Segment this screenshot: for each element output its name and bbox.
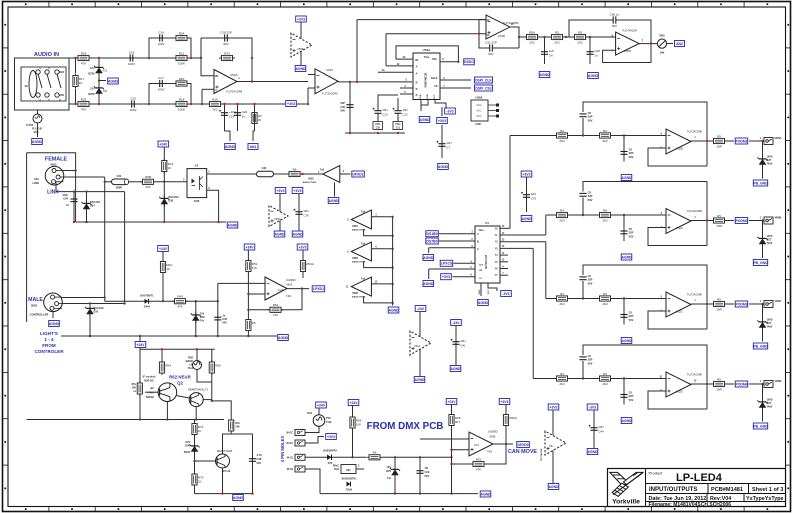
svg-text:TL072ACDR8: TL072ACDR8 xyxy=(687,131,703,134)
svg-text:+24V: +24V xyxy=(349,401,358,405)
resistor R6A xyxy=(160,260,172,275)
junction xyxy=(761,140,763,142)
svg-text:OUT: OUT xyxy=(278,289,284,292)
resistor R55 xyxy=(137,381,142,396)
svg-text:C5: C5 xyxy=(629,227,633,231)
svg-text:2K2: 2K2 xyxy=(529,40,535,44)
wire DAC pin A to U54D xyxy=(385,34,387,66)
svg-text:10K: 10K xyxy=(356,423,361,427)
wire male pin gnd xyxy=(52,312,54,318)
svg-text:47K: 47K xyxy=(81,61,86,65)
wire U52B output xyxy=(691,140,713,142)
ground AGND lights rail xyxy=(278,335,289,341)
wire to AN1 xyxy=(253,131,255,141)
svg-text:AGND: AGND xyxy=(389,308,400,312)
junction xyxy=(419,456,421,458)
svg-text:LINK: LINK xyxy=(32,181,39,185)
wire U50B pullup xyxy=(451,405,453,494)
wire U52A output xyxy=(691,220,713,222)
resistor R47 xyxy=(711,297,727,311)
svg-text:74xx: 74xx xyxy=(478,229,484,232)
junction xyxy=(223,103,225,105)
op-amp U52B xyxy=(666,129,703,154)
wire opto out pin3 xyxy=(207,190,219,222)
svg-text:C10: C10 xyxy=(376,127,381,129)
wire U54A inverting input xyxy=(201,58,214,76)
svg-text:10U: 10U xyxy=(446,141,452,145)
svg-text:R62: R62 xyxy=(188,356,193,360)
capacitor C50 xyxy=(607,12,623,27)
svg-text:BAS/LVTH08: BAS/LVTH08 xyxy=(303,181,317,184)
capacitor C15 xyxy=(125,96,141,111)
svg-text:PB_GND: PB_GND xyxy=(753,344,768,348)
wire zener BZT4 drop xyxy=(762,384,764,400)
svg-text:C: C xyxy=(477,248,479,251)
svg-text:C76: C76 xyxy=(303,213,309,217)
junction xyxy=(253,103,255,105)
wire U52B from decoder xyxy=(509,136,511,229)
capacitor C70 electrolytic xyxy=(521,186,537,206)
svg-text:PODM3: PODM3 xyxy=(735,302,747,306)
wire lamp to +24V xyxy=(318,408,320,415)
svg-text:+3V3: +3V3 xyxy=(549,405,557,409)
diode D44A xyxy=(145,299,149,304)
svg-text:CLK: CLK xyxy=(479,265,484,267)
junction xyxy=(349,132,351,134)
wire to PODM label xyxy=(727,140,734,142)
svg-text:AGND: AGND xyxy=(275,232,286,236)
svg-text:Yorkville: Yorkville xyxy=(612,499,640,506)
junction xyxy=(193,460,195,462)
wire U52D output xyxy=(371,283,392,285)
svg-text:74x8: 74x8 xyxy=(767,406,773,409)
svg-text:D36: D36 xyxy=(169,200,174,203)
wire U51A rail xyxy=(419,312,421,376)
connector VR6C xyxy=(764,301,773,308)
svg-text:U52C: U52C xyxy=(676,310,683,314)
svg-text:C15: C15 xyxy=(130,96,136,100)
svg-text:DSDO: DSDO xyxy=(464,60,474,64)
node LPXCS xyxy=(440,260,453,266)
power +3V3 column stage2 xyxy=(521,171,532,177)
resistor R49 xyxy=(172,295,188,309)
wire LM393A inverting input xyxy=(217,283,219,301)
junction xyxy=(761,383,763,385)
wire LM393A non-inverting input xyxy=(248,293,265,295)
svg-text:100V: 100V xyxy=(157,87,164,91)
svg-text:C17: C17 xyxy=(158,76,164,80)
svg-text:2K2: 2K2 xyxy=(212,107,218,111)
svg-text:100V: 100V xyxy=(157,42,164,46)
svg-text:1u5: 1u5 xyxy=(549,49,554,53)
power +24V male pullup xyxy=(158,246,169,252)
zener D45 sym xyxy=(191,312,201,324)
svg-text:A: A xyxy=(477,233,479,236)
wire U50B output xyxy=(493,443,513,445)
wire lights rail xyxy=(61,335,277,337)
junction xyxy=(195,418,197,420)
svg-text:VR6D: VR6D xyxy=(775,379,782,383)
svg-text:C5: C5 xyxy=(588,191,592,195)
wire to AGND ch2 xyxy=(225,131,231,141)
junction xyxy=(478,33,480,35)
svg-text:10R: 10R xyxy=(716,144,722,148)
junction xyxy=(148,103,150,105)
resistor R69 xyxy=(503,413,517,428)
svg-text:LIGHT'S: LIGHT'S xyxy=(40,331,58,336)
resistor R66 xyxy=(229,420,234,432)
svg-text:R4: R4 xyxy=(560,372,564,376)
wire C50 to output xyxy=(621,20,651,44)
node DS7B0 xyxy=(426,238,439,244)
capacitor C14 xyxy=(153,30,169,45)
wire stage U52A input xyxy=(546,214,666,216)
svg-text:U5x: U5x xyxy=(549,445,554,448)
svg-text:MJE-BC: MJE-BC xyxy=(144,380,154,383)
svg-text:3622: 3622 xyxy=(50,163,57,167)
op-amp U54D xyxy=(486,15,519,39)
op-amp U52C xyxy=(666,292,703,317)
svg-text:R49: R49 xyxy=(177,295,183,299)
svg-text:R4: R4 xyxy=(603,292,607,296)
wire ch2 bottom xyxy=(69,103,285,105)
junction xyxy=(518,36,520,38)
connector J5 molex pins xyxy=(295,430,305,436)
power +3V3 LM393A xyxy=(297,244,308,250)
wire PODM to connector xyxy=(749,383,763,385)
wire U50B feedback xyxy=(485,444,506,464)
svg-text:R25: R25 xyxy=(81,97,87,101)
svg-text:N.C: N.C xyxy=(477,109,482,113)
junction xyxy=(351,456,353,458)
wire to U50C input xyxy=(303,173,323,175)
svg-text:+3V3: +3V3 xyxy=(276,189,284,193)
svg-text:R56: R56 xyxy=(529,30,535,34)
svg-text:+3V3: +3V3 xyxy=(298,245,306,249)
resistor R42 xyxy=(554,208,570,222)
svg-text:+24V: +24V xyxy=(136,343,145,347)
svg-text:4.7U: 4.7U xyxy=(257,453,263,457)
svg-text:D35: D35 xyxy=(94,311,99,314)
transistor Q3 xyxy=(188,388,209,407)
wire C21 to output xyxy=(498,47,519,49)
ferrite C61 xyxy=(112,179,129,185)
wire filter chain xyxy=(519,36,616,38)
svg-text:Q2: Q2 xyxy=(150,386,154,390)
svg-text:10U: 10U xyxy=(382,108,388,112)
svg-text:VCC: VCC xyxy=(488,289,490,294)
svg-text:VCC: VCC xyxy=(434,94,436,99)
svg-text:7x66: 7x66 xyxy=(326,421,332,424)
wire stage U52B input xyxy=(510,135,666,137)
svg-text:R5: R5 xyxy=(717,134,721,138)
capacitor C17 xyxy=(153,76,169,91)
svg-text:R4: R4 xyxy=(603,129,607,133)
svg-text:C38: C38 xyxy=(257,457,262,461)
wire R64 top xyxy=(161,349,163,361)
power +24V LM393A xyxy=(244,244,255,250)
junction xyxy=(195,335,197,337)
resistor R53 xyxy=(300,259,314,274)
svg-text:AGND: AGND xyxy=(622,255,633,259)
ground AGND U52B xyxy=(621,175,632,181)
op-amp U54A xyxy=(214,70,243,94)
svg-text:C26: C26 xyxy=(340,105,345,109)
junction xyxy=(349,81,351,83)
logo Yorkville xyxy=(610,472,643,496)
svg-text:PB_GND: PB_GND xyxy=(753,424,768,428)
wire capacitor C54 drop xyxy=(623,136,625,162)
svg-text:DSPI_CLK: DSPI_CLK xyxy=(475,78,492,82)
comparator U50F LM393 xyxy=(265,277,296,300)
svg-text:100V: 100V xyxy=(129,108,136,112)
svg-text:22P: 22P xyxy=(340,101,345,105)
svg-text:C4: C4 xyxy=(195,164,199,168)
ground AGND ch2 caps xyxy=(225,144,236,150)
junction xyxy=(251,57,253,59)
wire U54A feedback loop xyxy=(200,38,202,58)
svg-text:C22: C22 xyxy=(242,110,248,114)
resistor R22 xyxy=(252,111,262,126)
junction xyxy=(706,303,708,305)
wire bottom gnd rail Q block xyxy=(195,493,253,495)
ground AGND dmx bottom xyxy=(480,491,491,497)
resistor R49 xyxy=(597,372,613,386)
svg-text:-3V3: -3V3 xyxy=(589,405,596,409)
resistor R7A xyxy=(162,159,174,174)
svg-text:R65: R65 xyxy=(215,364,221,368)
svg-text:U55B: U55B xyxy=(624,49,631,53)
svg-text:AGND: AGND xyxy=(588,450,599,454)
svg-text:C70: C70 xyxy=(531,196,537,200)
wire U52A right edge low xyxy=(706,221,708,246)
capacitor C64 xyxy=(73,192,75,222)
wire D35 top xyxy=(89,304,91,306)
power -24V U51A xyxy=(415,306,426,312)
junction xyxy=(98,57,100,59)
wire molex pin4 chain xyxy=(305,469,320,494)
wire zener to PB_GND xyxy=(762,331,764,342)
svg-text:R5: R5 xyxy=(717,214,721,218)
op-amp U54C xyxy=(315,68,338,96)
wire Q3 to R65 node xyxy=(203,399,212,401)
svg-text:18V: 18V xyxy=(90,66,95,70)
wire U50C output xyxy=(340,173,351,175)
wire U52A plus loop xyxy=(648,228,707,246)
svg-text:2K2: 2K2 xyxy=(602,139,608,143)
junction xyxy=(74,169,76,171)
svg-text:18V: 18V xyxy=(90,87,95,91)
svg-text:LPXD1: LPXD1 xyxy=(313,287,324,291)
wire U52C output xyxy=(691,303,713,305)
capacitor C28 xyxy=(218,30,234,45)
svg-text:-24V: -24V xyxy=(417,307,425,311)
svg-text:+24V: +24V xyxy=(447,400,456,404)
ground AGND C41 xyxy=(450,366,461,372)
svg-text:(F section): (F section) xyxy=(143,376,156,379)
wire +3V3 stub U54 xyxy=(441,107,443,116)
svg-text:AGND: AGND xyxy=(225,145,236,149)
wire to PODM label xyxy=(727,220,734,222)
svg-text:TL072ACDR8: TL072ACDR8 xyxy=(226,90,243,94)
junction xyxy=(104,296,106,298)
svg-text:1K: 1K xyxy=(198,480,202,484)
svg-text:AGND: AGND xyxy=(522,217,533,221)
svg-text:R21: R21 xyxy=(179,51,185,55)
transistor Q2 xyxy=(158,383,177,402)
svg-text:R18: R18 xyxy=(179,97,185,101)
svg-text:U50A: U50A xyxy=(286,284,293,287)
junction xyxy=(73,221,75,223)
node UFXD0 xyxy=(517,442,530,448)
wire U56B rail xyxy=(300,22,302,66)
wire U52D output xyxy=(691,383,713,385)
svg-text:R6: R6 xyxy=(373,451,377,455)
svg-text:R4: R4 xyxy=(603,208,607,212)
wire capacitor C58 drop xyxy=(623,299,625,325)
power +3V3 U50H xyxy=(548,404,559,410)
connector J3 barrel xyxy=(29,71,37,98)
svg-text:-3V3: -3V3 xyxy=(502,292,509,296)
svg-text:Sheet 1 of 3: Sheet 1 of 3 xyxy=(752,487,783,493)
svg-text:U54C: U54C xyxy=(326,68,333,72)
capacitor C54 xyxy=(620,151,627,153)
node PODM1 xyxy=(735,138,748,144)
svg-text:AGND: AGND xyxy=(451,367,462,371)
svg-text:AGND: AGND xyxy=(49,322,60,326)
junction xyxy=(397,132,399,134)
wire U54D output xyxy=(510,27,519,48)
svg-text:AGND: AGND xyxy=(423,256,434,260)
ground AGND C47 xyxy=(539,72,550,78)
capacitor C22 xyxy=(234,106,248,122)
connector J3 audio jack outer box xyxy=(15,58,70,110)
svg-text:BZX8: BZX8 xyxy=(88,73,95,76)
wire U52D feedback box xyxy=(582,361,584,379)
svg-text:C61: C61 xyxy=(117,174,122,178)
node UFXD1 xyxy=(352,171,365,177)
svg-text:AUDIO IN: AUDIO IN xyxy=(34,52,59,58)
svg-text:1K: 1K xyxy=(198,429,202,433)
svg-text:LINK: LINK xyxy=(47,190,59,196)
svg-text:1N: 1N xyxy=(425,466,428,470)
wire Q2 collector xyxy=(139,349,141,419)
svg-text:R19: R19 xyxy=(212,97,218,101)
power +24V pin3 pullup xyxy=(348,400,359,406)
svg-text:UFXD0: UFXD0 xyxy=(517,443,528,447)
wire U52C right edge low xyxy=(706,304,708,329)
svg-text:2K2: 2K2 xyxy=(602,302,608,306)
wire C26 bottom rail xyxy=(349,82,351,133)
junction xyxy=(196,348,198,350)
capacitor C55 xyxy=(579,195,586,197)
svg-text:50V: 50V xyxy=(629,155,634,159)
svg-text:50V: 50V xyxy=(629,234,634,238)
IC U54 DAC xyxy=(413,53,440,100)
svg-text:10U: 10U xyxy=(460,339,466,343)
wire feedback left xyxy=(452,463,473,465)
wire LM393A feedback xyxy=(248,289,302,310)
svg-text:AGND: AGND xyxy=(233,496,244,500)
resistor R57 xyxy=(549,30,565,44)
svg-text:R60: R60 xyxy=(660,34,665,38)
svg-text:C48: C48 xyxy=(594,49,600,53)
svg-text:SCLK: SCLK xyxy=(431,77,438,80)
svg-text:HA: HA xyxy=(415,59,419,62)
svg-text:OUT: OUT xyxy=(474,444,480,447)
resistor R20 xyxy=(174,77,190,86)
wire LM393A output xyxy=(287,288,309,290)
svg-text:MMBT5401LT1: MMBT5401LT1 xyxy=(188,388,209,392)
resistor R58 xyxy=(572,30,588,44)
resistor R25 xyxy=(76,97,92,111)
wire zener to PB_GND xyxy=(762,247,764,258)
svg-text:+3V3: +3V3 xyxy=(297,17,305,21)
svg-text:TL072ACDR8: TL072ACDR8 xyxy=(687,210,703,213)
svg-text:C28 22P: C28 22P xyxy=(220,30,232,34)
power +3V3 U50B xyxy=(499,399,510,405)
junction xyxy=(650,42,652,44)
svg-text:2K2: 2K2 xyxy=(554,40,560,44)
junction xyxy=(123,302,125,304)
svg-text:AGND: AGND xyxy=(329,199,340,203)
svg-text:U52B: U52B xyxy=(676,147,683,151)
svg-text:470n: 470n xyxy=(395,123,401,126)
wire ch1 top xyxy=(69,57,201,59)
wire U50B inverting input xyxy=(452,449,470,451)
connector VR6D xyxy=(764,381,773,388)
junction xyxy=(85,221,87,223)
resistor R41 xyxy=(711,134,727,148)
wire C41 column xyxy=(455,326,457,365)
gate U50C (left-facing) xyxy=(323,166,340,183)
junction xyxy=(623,214,625,216)
svg-text:50V: 50V xyxy=(588,361,593,365)
resistor R48 xyxy=(554,372,570,386)
wire U54C output up to U54D xyxy=(356,20,358,82)
wire U52B right edge low xyxy=(706,141,708,166)
svg-text:7x8: 7x8 xyxy=(320,169,325,172)
junction xyxy=(89,302,91,304)
junction xyxy=(543,36,545,38)
wire U52D from decoder xyxy=(532,248,534,378)
diode D35 xyxy=(85,305,95,317)
wire U52B plus loop xyxy=(648,148,707,166)
svg-text:AGND: AGND xyxy=(278,336,289,340)
capacitor C47 xyxy=(541,44,554,62)
wire bottom gnd rail dmx xyxy=(320,493,478,495)
svg-text:+24V: +24V xyxy=(245,245,254,249)
svg-text:C5: C5 xyxy=(629,391,633,395)
junction xyxy=(247,335,249,337)
wire zener BZT1 drop xyxy=(762,141,764,157)
junction xyxy=(236,103,238,105)
svg-text:AGND: AGND xyxy=(622,419,633,423)
svg-text:+3V3: +3V3 xyxy=(438,119,446,123)
wire U52C plus loop xyxy=(648,311,707,329)
wire R17 top xyxy=(75,58,77,73)
svg-text:AGND: AGND xyxy=(622,339,633,343)
resistor R75 xyxy=(192,472,204,487)
power +24V opto xyxy=(158,141,169,147)
junction xyxy=(190,57,192,59)
svg-text:B: B xyxy=(416,94,418,97)
svg-text:+3V3: +3V3 xyxy=(522,172,530,176)
svg-text:D2: D2 xyxy=(103,89,107,93)
svg-text:U54A: U54A xyxy=(423,48,432,52)
wire U50C gnd drop xyxy=(334,182,336,196)
svg-text:AGND: AGND xyxy=(415,378,426,382)
